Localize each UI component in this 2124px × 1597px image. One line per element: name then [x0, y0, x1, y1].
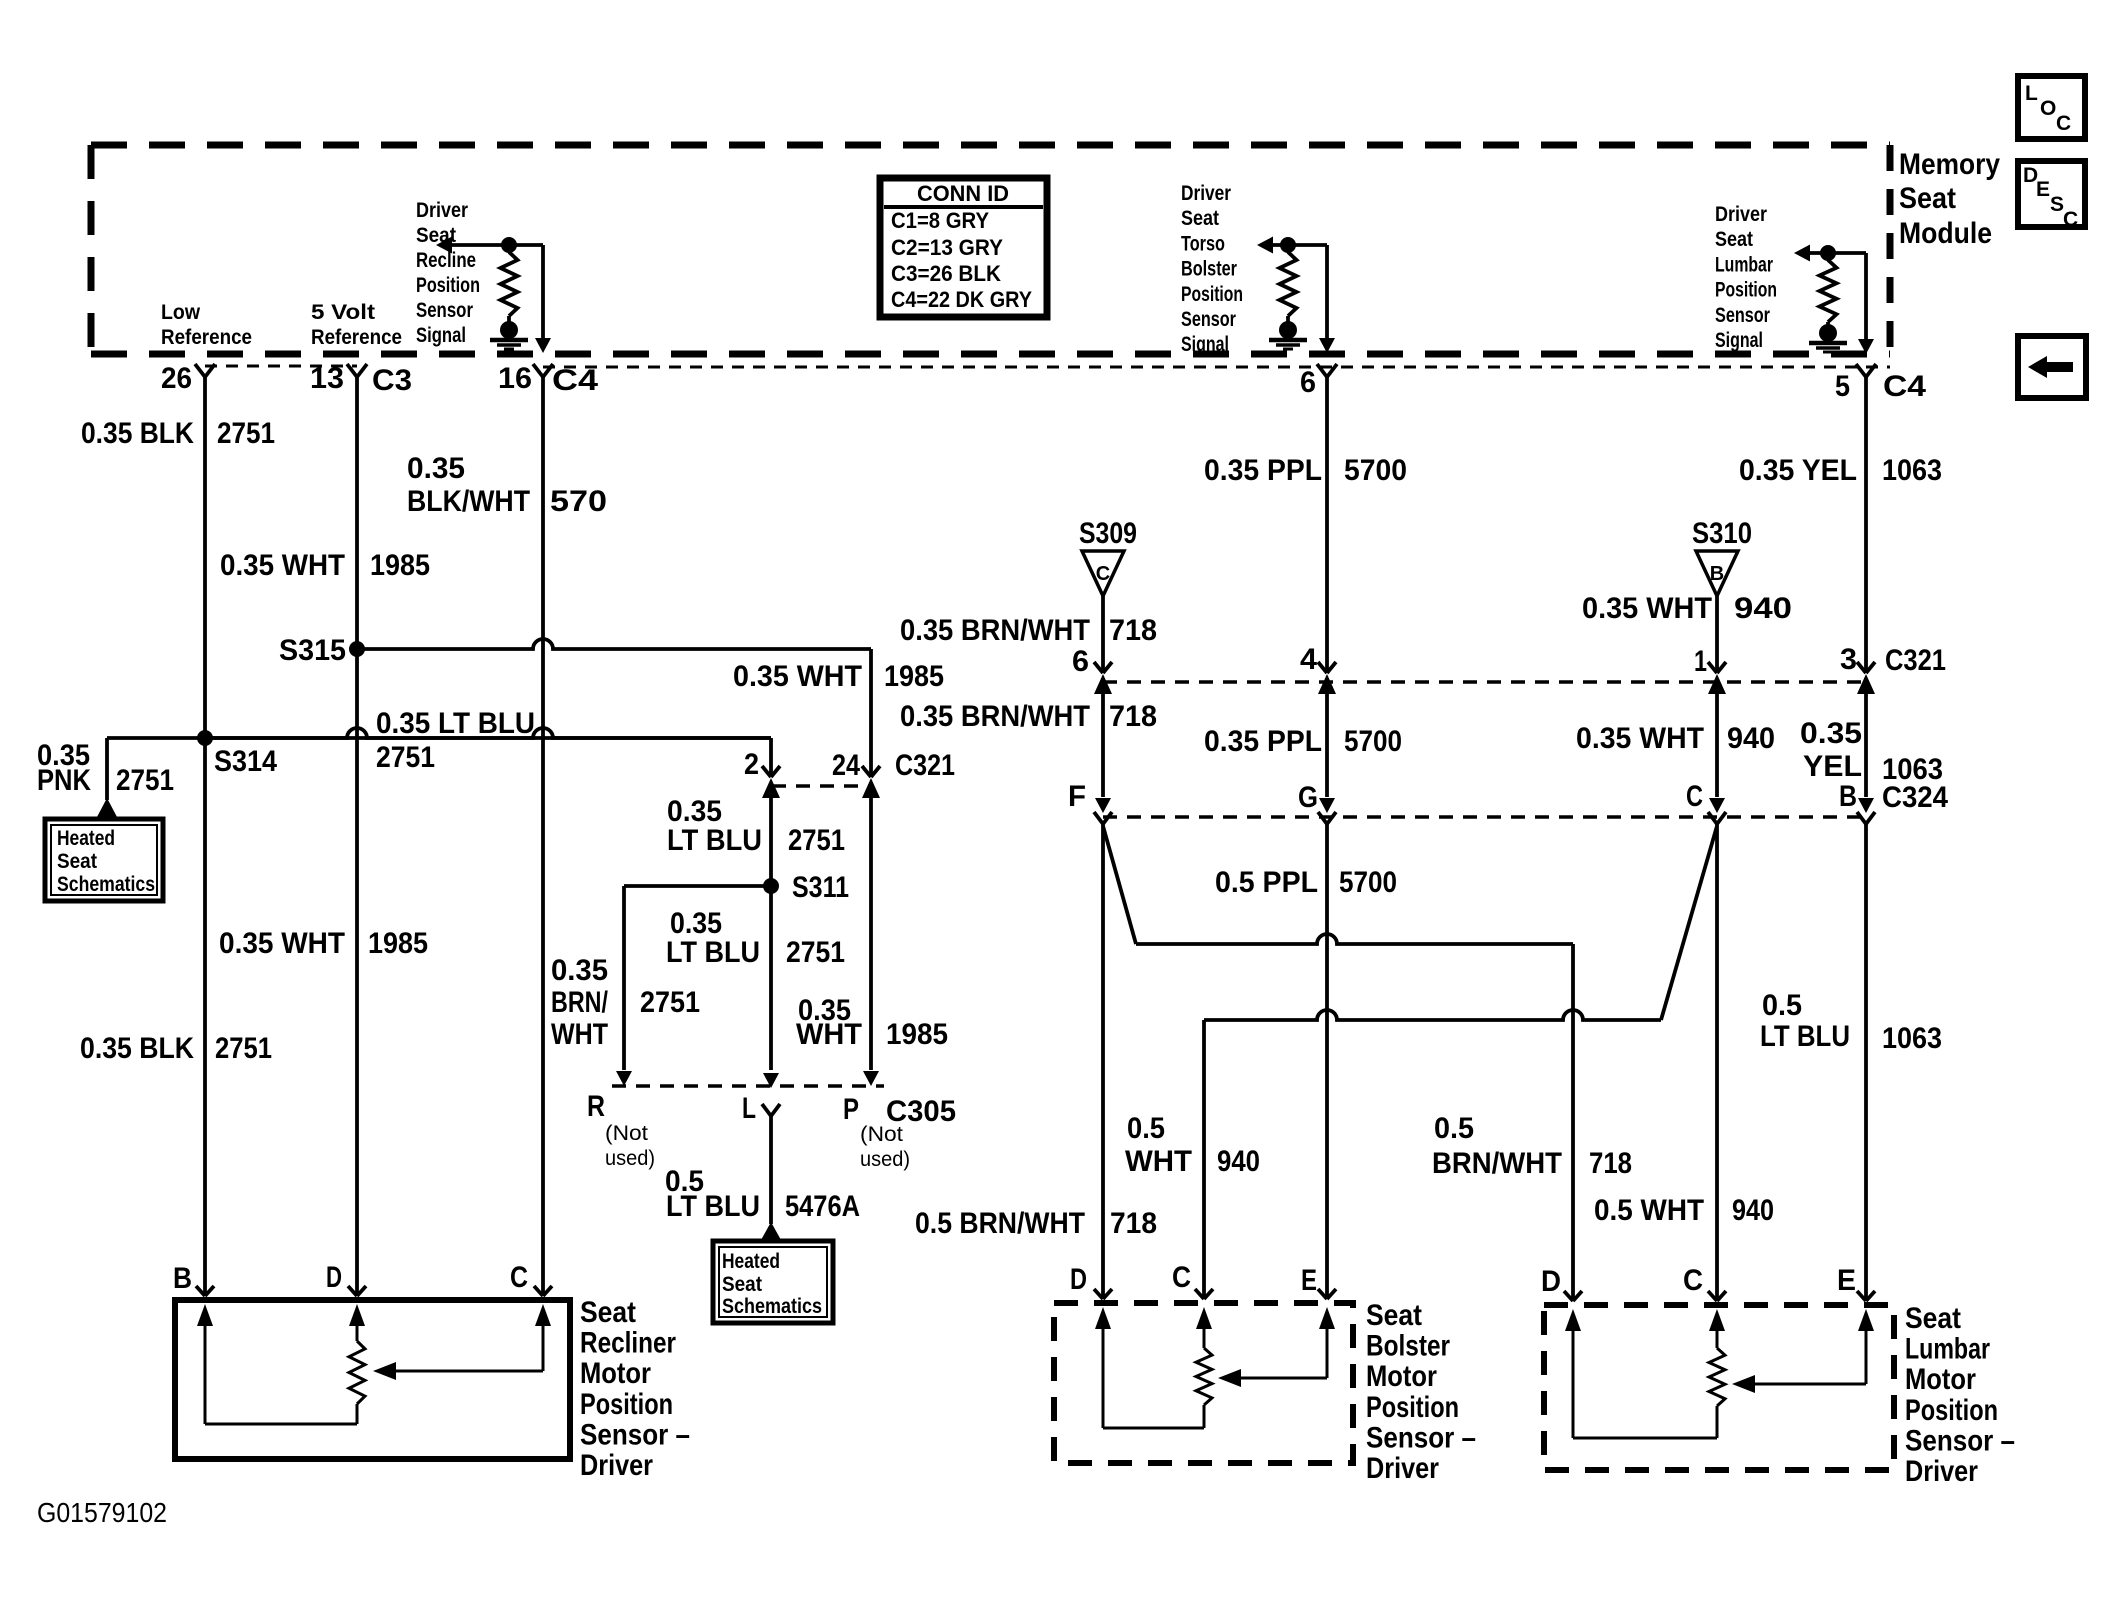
svg-text:Position: Position	[416, 274, 480, 297]
svg-text:16: 16	[498, 362, 532, 395]
svg-text:C: C	[1683, 1264, 1703, 1297]
DESC reference box	[2018, 161, 2085, 227]
svg-text:used): used)	[860, 1148, 910, 1171]
svg-text:940: 940	[1727, 722, 1775, 755]
wire C 940 down to lumbar C (0.5 WHT 940)	[1715, 824, 1719, 1301]
svg-text:Heated: Heated	[722, 1250, 780, 1273]
recliner sensor potentiometer	[356, 1322, 359, 1341]
connector C324 dashed line	[1103, 815, 1866, 819]
svg-text:24: 24	[832, 749, 860, 782]
svg-text:Sensor –: Sensor –	[580, 1418, 690, 1451]
svg-text:YEL: YEL	[1803, 750, 1862, 783]
connector C4 dashed line	[543, 366, 1890, 369]
svg-text:5476A: 5476A	[785, 1190, 860, 1223]
pin 5 connector fork C4	[1856, 364, 1866, 377]
svg-text:718: 718	[1589, 1147, 1632, 1180]
svg-text:2751: 2751	[640, 986, 700, 1019]
svg-text:5: 5	[1835, 370, 1850, 403]
svg-text:S: S	[2050, 193, 2064, 216]
svg-text:0.35 PPL: 0.35 PPL	[1204, 725, 1322, 758]
svg-text:Driver: Driver	[580, 1449, 653, 1482]
svg-text:1985: 1985	[886, 1018, 948, 1051]
connector C321 right dashed line	[1103, 680, 1866, 684]
wire C branch diagonal to bolster feed	[1661, 826, 1717, 1020]
wire pin 3 (0.35 YEL 1063)	[1864, 377, 1868, 673]
wire S310 to pin 1 C321 (0.35 WHT 940)	[1715, 596, 1719, 673]
svg-text:940: 940	[1217, 1145, 1260, 1178]
Seat Lumbar Motor Position Sensor box	[1544, 1305, 1894, 1470]
svg-text:Motor: Motor	[580, 1357, 651, 1390]
svg-text:G: G	[1298, 781, 1318, 814]
recliner sensor wiper	[542, 1322, 545, 1371]
svg-text:0.35 BLK: 0.35 BLK	[80, 1032, 194, 1065]
wire S311 left branch (0.35 BRN/WHT 2751)	[624, 884, 771, 888]
C305 pin P arrow	[863, 1071, 879, 1086]
svg-text:C2=13 GRY: C2=13 GRY	[891, 235, 1003, 260]
svg-text:Signal: Signal	[416, 324, 466, 347]
svg-text:R: R	[587, 1090, 605, 1123]
svg-text:C4: C4	[552, 364, 598, 397]
wire 26 low reference (0.35 BLK 2751)	[203, 377, 207, 1296]
lumbar sensor potentiometer R-lumbar	[1808, 251, 1866, 255]
pin 24 connector	[862, 766, 871, 777]
svg-text:Seat: Seat	[1715, 228, 1753, 251]
svg-text:LT BLU: LT BLU	[1760, 1020, 1850, 1053]
svg-text:0.5 WHT: 0.5 WHT	[1594, 1194, 1704, 1227]
recline sensor potentiometer R-recline	[450, 243, 543, 247]
lumbar sensor ground	[1819, 324, 1837, 342]
svg-text:C324: C324	[1882, 781, 1948, 814]
svg-text:E: E	[1837, 1264, 1856, 1297]
wire L to heated seat (0.5 LT BLU 5476A)	[762, 1104, 771, 1116]
CONN ID table	[880, 178, 1047, 317]
svg-text:Schematics: Schematics	[722, 1295, 822, 1318]
svg-text:570: 570	[550, 485, 607, 518]
C324 pin F connector	[1095, 798, 1111, 813]
svg-text:4: 4	[1300, 643, 1317, 676]
svg-text:0.35 WHT: 0.35 WHT	[733, 660, 862, 693]
svg-text:B: B	[173, 1262, 192, 1295]
svg-text:Position: Position	[1905, 1394, 1998, 1427]
svg-text:13: 13	[310, 362, 344, 395]
svg-text:2: 2	[744, 748, 759, 781]
svg-text:Reference: Reference	[161, 326, 252, 349]
svg-text:1985: 1985	[884, 660, 944, 693]
svg-text:2751: 2751	[376, 741, 435, 774]
svg-text:Sensor: Sensor	[416, 299, 473, 322]
svg-text:C3: C3	[372, 364, 412, 397]
svg-text:E: E	[1301, 1264, 1317, 1297]
svg-text:Driver: Driver	[1181, 182, 1231, 205]
recliner box pin B	[196, 1286, 205, 1296]
svg-text:0.5 BRN/WHT: 0.5 BRN/WHT	[915, 1207, 1085, 1240]
svg-text:LT BLU: LT BLU	[667, 824, 762, 857]
svg-text:used): used)	[605, 1147, 655, 1170]
svg-text:Driver: Driver	[416, 199, 468, 222]
svg-text:Seat: Seat	[57, 850, 97, 873]
svg-text:Signal: Signal	[1181, 333, 1229, 356]
recliner box pin C	[534, 1286, 543, 1296]
svg-text:D: D	[326, 1261, 342, 1294]
svg-text:Torso: Torso	[1181, 232, 1225, 255]
wire F branch diagonal to lumbar feed	[1103, 826, 1136, 944]
wire G bolster signal down to bolster E (0.5 PPL 5700)	[1325, 824, 1329, 1299]
lumbar sensor low side loop	[1572, 1327, 1575, 1438]
bolster box pin C	[1195, 1289, 1204, 1299]
connector C321 left dashed line	[772, 784, 871, 788]
svg-text:0.35 WHT: 0.35 WHT	[1576, 722, 1704, 755]
svg-text:5700: 5700	[1339, 866, 1397, 899]
svg-text:2751: 2751	[215, 1032, 272, 1065]
svg-text:Seat: Seat	[722, 1273, 762, 1296]
torso bolster sensor potentiometer R-bolster	[1271, 243, 1327, 247]
svg-text:3: 3	[1840, 643, 1857, 676]
svg-text:C321: C321	[1885, 644, 1946, 677]
svg-text:0.35 WHT: 0.35 WHT	[220, 549, 345, 582]
svg-text:0.35 YEL: 0.35 YEL	[1739, 454, 1857, 487]
svg-text:Module: Module	[1899, 217, 1992, 250]
svg-text:26: 26	[161, 362, 192, 395]
svg-text:WHT: WHT	[551, 1018, 608, 1051]
svg-text:C: C	[1686, 780, 1703, 813]
svg-text:S315: S315	[279, 634, 346, 667]
svg-text:Driver: Driver	[1715, 203, 1767, 226]
wire F low reference down to bolster D (0.5 BRN/WHT 718)	[1101, 824, 1105, 1299]
svg-text:Sensor: Sensor	[1715, 304, 1770, 327]
svg-text:BRN/: BRN/	[551, 986, 609, 1019]
svg-text:718: 718	[1109, 614, 1157, 647]
wire 718 down to lumbar D	[1571, 944, 1575, 1301]
recline sensor ground	[500, 321, 518, 339]
svg-text:L: L	[2025, 82, 2038, 105]
wire S309 to pin 6 C321 (0.35 BRN/WHT 718)	[1101, 596, 1105, 673]
svg-text:Seat: Seat	[1181, 207, 1219, 230]
svg-text:Schematics: Schematics	[57, 873, 155, 896]
C321 pin 6 connector	[1094, 662, 1103, 673]
svg-text:1985: 1985	[370, 549, 430, 582]
svg-text:2751: 2751	[217, 417, 275, 450]
svg-text:1063: 1063	[1882, 1022, 1942, 1055]
C305 pin R arrow	[616, 1071, 632, 1086]
svg-text:Recliner: Recliner	[580, 1327, 676, 1360]
svg-text:C321: C321	[895, 749, 955, 782]
wire 0.35 PNK 2751 to heated seat	[105, 738, 109, 800]
wire S315 to pin 24 (0.35 WHT 1985)	[357, 639, 871, 649]
svg-text:Recline: Recline	[416, 249, 476, 272]
svg-text:C4: C4	[1883, 370, 1926, 403]
svg-text:D: D	[1070, 1263, 1087, 1296]
svg-text:1: 1	[1694, 645, 1707, 678]
svg-text:Position: Position	[580, 1388, 673, 1421]
recliner box pin D	[348, 1286, 357, 1296]
svg-text:Bolster: Bolster	[1181, 258, 1237, 281]
svg-text:1063: 1063	[1882, 454, 1942, 487]
svg-text:Position: Position	[1181, 283, 1243, 306]
svg-text:C: C	[1096, 563, 1110, 585]
C321 pin 4 connector	[1318, 662, 1327, 673]
svg-text:2751: 2751	[788, 824, 845, 857]
svg-text:0.35 BRN/WHT: 0.35 BRN/WHT	[900, 700, 1090, 733]
C324 pin G connector	[1319, 798, 1335, 813]
C324 pin C connector	[1709, 798, 1725, 813]
svg-text:S314: S314	[214, 745, 277, 778]
bolster sensor wiper	[1326, 1325, 1329, 1378]
svg-text:BLK/WHT: BLK/WHT	[407, 485, 530, 518]
svg-text:B: B	[1710, 563, 1724, 585]
svg-text:Signal: Signal	[1715, 329, 1763, 352]
back-arrow box	[2018, 336, 2086, 398]
bolster box pin D	[1094, 1289, 1103, 1299]
svg-text:S310: S310	[1692, 517, 1752, 550]
svg-text:Seat: Seat	[580, 1296, 636, 1329]
svg-text:LT BLU: LT BLU	[666, 1190, 760, 1223]
torso bolster sensor ground	[1279, 321, 1297, 339]
wire: bolster signal inside module	[1325, 245, 1329, 340]
lumbar box pin D	[1564, 1291, 1573, 1301]
wire: recline signal inside module	[541, 245, 545, 340]
svg-text:D: D	[1541, 1265, 1561, 1298]
Seat Recliner Motor Position Sensor box	[175, 1300, 570, 1459]
svg-text:0.35 BRN/WHT: 0.35 BRN/WHT	[900, 614, 1090, 647]
svg-text:6: 6	[1072, 645, 1089, 678]
wire pin 4 (0.35 PPL 5700)	[1325, 377, 1329, 673]
Heated Seat Schematics box left	[45, 819, 163, 901]
svg-text:Heated: Heated	[57, 827, 115, 850]
svg-text:Sensor –: Sensor –	[1366, 1421, 1476, 1454]
svg-text:CONN ID: CONN ID	[917, 181, 1009, 206]
svg-text:0.35: 0.35	[1800, 717, 1862, 750]
svg-text:0.5: 0.5	[1762, 989, 1802, 1022]
svg-text:6: 6	[1300, 366, 1316, 399]
Heated Seat Schematics box center	[713, 1241, 833, 1323]
lumbar box pin E	[1857, 1291, 1866, 1301]
svg-text:Reference: Reference	[311, 326, 402, 349]
splice S314	[197, 730, 213, 746]
C324 pin B connector	[1858, 798, 1874, 813]
lumbar sensor potentiometer	[1716, 1327, 1719, 1348]
svg-text:0.35: 0.35	[551, 954, 608, 987]
wire B lumbar signal down to lumbar E (0.5 LT BLU 1063)	[1864, 824, 1868, 1301]
bolster sensor potentiometer	[1203, 1325, 1206, 1348]
Memory Seat Module dashed box	[91, 142, 1890, 149]
wire 718 horizontal branch	[1136, 934, 1573, 944]
pin 6 connector fork	[1317, 364, 1327, 377]
svg-text:WHT: WHT	[1125, 1145, 1192, 1178]
svg-text:L: L	[742, 1092, 756, 1125]
svg-text:Driver: Driver	[1905, 1455, 1978, 1488]
svg-text:Seat: Seat	[1905, 1302, 1961, 1335]
svg-text:BRN/WHT: BRN/WHT	[1432, 1147, 1562, 1180]
pin 13 connector fork C3	[347, 364, 357, 377]
splice S315	[349, 641, 365, 657]
svg-text:Motor: Motor	[1905, 1363, 1976, 1396]
svg-text:Position: Position	[1715, 279, 1777, 302]
wire 940 down to bolster C	[1202, 1020, 1206, 1299]
svg-text:Lumbar: Lumbar	[1905, 1333, 1990, 1366]
svg-text:Driver: Driver	[1366, 1452, 1439, 1485]
wire 2 to C305 L (0.35 LT BLU 2751)	[769, 886, 773, 1070]
svg-text:Seat: Seat	[1366, 1299, 1422, 1332]
lumbar sensor wiper	[1865, 1327, 1868, 1384]
wire S314 branch (0.35 LT BLU 2751)	[107, 736, 771, 740]
svg-text:Lumbar: Lumbar	[1715, 253, 1773, 276]
wire 940 horizontal branch	[1204, 1010, 1661, 1020]
C321 pin 3 connector	[1857, 662, 1866, 673]
svg-text:0.5: 0.5	[1127, 1112, 1165, 1145]
wire: lumbar signal inside module	[1864, 253, 1868, 341]
svg-text:C: C	[2056, 112, 2071, 135]
svg-text:C4=22 DK GRY: C4=22 DK GRY	[891, 287, 1032, 312]
svg-text:2751: 2751	[116, 764, 174, 797]
svg-text:718: 718	[1110, 1207, 1157, 1240]
recliner sensor low side loop	[204, 1322, 207, 1424]
svg-text:O: O	[2040, 97, 2056, 120]
connector C305 dashed line	[612, 1084, 884, 1088]
svg-text:G01579102: G01579102	[37, 1497, 167, 1528]
svg-text:(Not: (Not	[605, 1122, 648, 1145]
svg-text:C: C	[510, 1261, 528, 1294]
svg-text:C: C	[1172, 1261, 1191, 1294]
svg-text:0.5 PPL: 0.5 PPL	[1215, 866, 1318, 899]
C305 pin L arrow	[763, 1073, 779, 1088]
LOC reference box	[2018, 76, 2085, 139]
svg-text:C: C	[2063, 208, 2078, 231]
pin 26 connector fork	[195, 364, 205, 377]
svg-text:S311: S311	[792, 871, 849, 904]
bolster box pin E	[1318, 1289, 1327, 1299]
svg-text:0.35: 0.35	[407, 452, 465, 485]
pin 2 connector	[762, 766, 771, 777]
svg-text:PNK: PNK	[37, 764, 91, 797]
svg-text:0.5: 0.5	[1434, 1112, 1474, 1145]
pin 16 connector fork C4	[533, 364, 543, 377]
svg-text:0.35 WHT: 0.35 WHT	[219, 927, 345, 960]
svg-text:Memory: Memory	[1899, 148, 2000, 181]
svg-text:B: B	[1839, 780, 1857, 813]
svg-text:Sensor: Sensor	[1181, 308, 1236, 331]
svg-text:Bolster: Bolster	[1366, 1330, 1450, 1363]
svg-text:LT BLU: LT BLU	[666, 936, 760, 969]
svg-text:5700: 5700	[1344, 725, 1402, 758]
svg-text:E: E	[2036, 178, 2050, 201]
svg-text:C1=8 GRY: C1=8 GRY	[891, 208, 989, 233]
splice S311	[763, 878, 779, 894]
svg-text:Position: Position	[1366, 1391, 1459, 1424]
svg-text:940: 940	[1732, 1194, 1774, 1227]
svg-text:P: P	[843, 1093, 859, 1126]
svg-text:0.35 BLK: 0.35 BLK	[81, 417, 194, 450]
wire 13 5-volt reference (0.35 WHT 1985)	[355, 377, 359, 1296]
svg-text:Sensor –: Sensor –	[1905, 1424, 2015, 1457]
svg-text:2751: 2751	[786, 936, 845, 969]
svg-text:0.35 PPL: 0.35 PPL	[1204, 454, 1322, 487]
svg-text:S309: S309	[1079, 517, 1137, 550]
Seat Bolster Motor Position Sensor box	[1054, 1303, 1353, 1463]
svg-text:F: F	[1068, 780, 1086, 813]
svg-text:718: 718	[1109, 700, 1157, 733]
svg-text:Low: Low	[161, 301, 201, 324]
lumbar box pin C	[1708, 1291, 1717, 1301]
svg-text:(Not: (Not	[860, 1123, 903, 1146]
connector C3 dashed line	[205, 365, 357, 368]
svg-text:WHT: WHT	[796, 1018, 862, 1051]
svg-text:1985: 1985	[368, 927, 428, 960]
wire 16 recline signal (0.35 BLK/WHT 570)	[541, 377, 545, 1296]
svg-text:Seat: Seat	[1899, 182, 1956, 215]
svg-text:0.35 LT BLU: 0.35 LT BLU	[376, 707, 535, 740]
svg-text:5 Volt: 5 Volt	[311, 301, 375, 324]
C321 pin 1 connector	[1708, 662, 1717, 673]
svg-text:940: 940	[1734, 592, 1792, 625]
svg-text:Motor: Motor	[1366, 1360, 1437, 1393]
svg-text:0.35 WHT: 0.35 WHT	[1582, 592, 1712, 625]
svg-text:5700: 5700	[1344, 454, 1407, 487]
svg-text:C3=26 BLK: C3=26 BLK	[891, 261, 1001, 286]
bolster sensor low side loop	[1102, 1325, 1105, 1428]
